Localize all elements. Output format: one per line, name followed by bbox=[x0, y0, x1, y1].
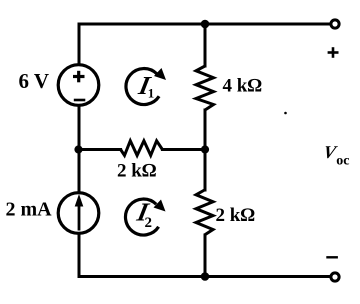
svg-text:oc: oc bbox=[336, 154, 349, 169]
svg-text:2 kΩ: 2 kΩ bbox=[216, 205, 256, 226]
svg-text:1: 1 bbox=[148, 86, 155, 101]
svg-text:2 kΩ: 2 kΩ bbox=[117, 161, 157, 182]
svg-text:6 V: 6 V bbox=[18, 69, 49, 93]
svg-text:2: 2 bbox=[145, 215, 153, 231]
svg-text:4 kΩ: 4 kΩ bbox=[223, 76, 263, 97]
svg-text:2 mA: 2 mA bbox=[6, 199, 53, 221]
